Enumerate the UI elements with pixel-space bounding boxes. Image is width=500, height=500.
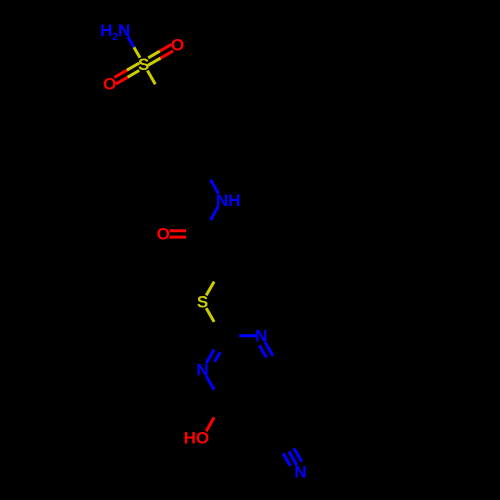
svg-text:NH: NH: [216, 191, 241, 210]
bond S2-C2 (S-pyrimidine): [206, 308, 214, 322]
bond C5-C6 benzene: [144, 132, 164, 166]
bond C6-C1 benzene: [144, 98, 164, 132]
svg-text:O: O: [157, 225, 170, 244]
bond C=O3 (amide C=O): [170, 231, 187, 237]
bond C4-C5 benzene: [163, 165, 202, 168]
svg-text:S: S: [138, 55, 149, 74]
bond N-C carbonyl: [211, 206, 219, 220]
svg-text:N: N: [255, 327, 267, 346]
svg-text:N: N: [294, 462, 306, 481]
bond C2-C3 benzene: [203, 98, 223, 132]
bond C6-O4 (C-OH): [206, 417, 214, 431]
bond N1-C6 (pyrimidine): [206, 376, 214, 390]
bond S1=O1 (S=O double): [148, 44, 173, 65]
svg-text:HO: HO: [184, 428, 210, 447]
bond C4aryl-N (aryl to amide N): [211, 180, 219, 194]
bond C5-C6 pyrimidine: [222, 402, 261, 405]
bond N-S1 (sulfonamide N-S): [128, 37, 140, 58]
bond C1-C2 benzene: [163, 97, 202, 100]
svg-text:N: N: [196, 361, 208, 380]
bond N3=C4 (pyrimidine double): [260, 342, 273, 357]
svg-text:O: O: [171, 35, 184, 54]
bond C2=N1 (pyrimidine double): [206, 350, 220, 364]
bond C-N nitrile triple: [283, 448, 302, 466]
bond S1=O2 (S=O double): [114, 63, 139, 84]
bond CH2-S2 (thioether): [206, 282, 214, 296]
svg-text:S: S: [197, 293, 208, 312]
bond C2-N3 (pyrimidine): [239, 334, 256, 337]
bond C3-C4 benzene: [203, 132, 223, 166]
bond S1-C1 (S-aryl): [147, 71, 155, 85]
bond C4-C5 pyrimidine: [261, 370, 281, 404]
bond C5-C nitrile: [261, 404, 281, 438]
bond C carbonyl-CH2: [203, 234, 223, 268]
svg-text:O: O: [103, 75, 116, 94]
